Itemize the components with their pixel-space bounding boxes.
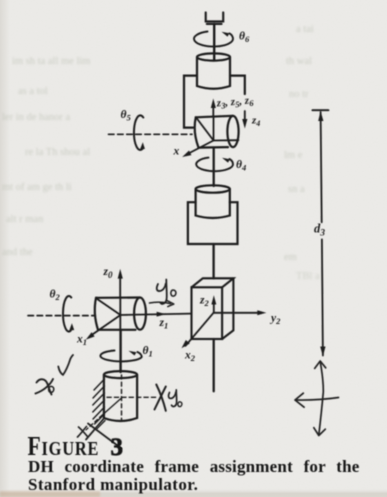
z1 axis line (shoulder to box) xyxy=(121,314,192,315)
svg-text:Stanford manipulator.: Stanford manipulator. xyxy=(28,475,198,494)
z3,z5,z6 axis arrow (up) xyxy=(212,107,214,117)
handwritten annotations xyxy=(36,280,339,449)
theta6 arrowhead xyxy=(222,32,230,37)
x1 axis arrow xyxy=(90,315,121,337)
svg-text:lm e: lm e xyxy=(284,150,303,161)
base diagonal axis (x toward label) xyxy=(100,398,122,418)
handwritten y0 (base) xyxy=(169,392,176,399)
gripper T bar xyxy=(207,23,222,25)
svg-text:alt r man: alt r man xyxy=(6,214,44,225)
theta1 arrowhead xyxy=(129,351,137,356)
handwritten arrow under y0 xyxy=(150,302,171,303)
svg-text:im sh ta all me lim: im sh ta all me lim xyxy=(12,56,90,67)
handwritten y0 (near shoulder) xyxy=(157,284,166,292)
bleed-through text (left margin) xyxy=(2,24,320,282)
figure caption xyxy=(28,432,360,494)
svg-text:th wal: th wal xyxy=(286,56,312,67)
svg-text:TBl a: TBl a xyxy=(296,271,320,282)
handwritten arrows (bottom right) xyxy=(319,362,324,436)
svg-text:mt of am ge th li: mt of am ge th li xyxy=(2,182,72,193)
z1 arrowhead xyxy=(157,312,166,317)
z0 axis arrow xyxy=(119,278,121,298)
svg-text:no tr: no tr xyxy=(289,89,309,100)
label d3 xyxy=(314,222,325,239)
forearm cylinder xyxy=(196,185,230,218)
forearm-to-box stem xyxy=(212,244,214,278)
svg-text:x: x xyxy=(173,146,180,158)
box lower stem xyxy=(213,339,215,391)
printed labels xyxy=(50,31,326,364)
svg-text:ler in de hanor a: ler in de hanor a xyxy=(2,112,71,123)
base dashed horizontal axis (y0) xyxy=(107,396,158,398)
theta5 dashed axis xyxy=(109,133,193,135)
gripper stem xyxy=(213,24,215,60)
wrist-to-forearm stem xyxy=(213,148,215,186)
handwritten X strokes over FIGURE 3 xyxy=(86,419,104,440)
shoulder interior corner xyxy=(97,299,121,315)
svg-text:a tai: a tai xyxy=(296,24,314,35)
theta5 arrowhead xyxy=(140,142,145,149)
d3 dimension line xyxy=(312,109,328,111)
svg-text:DH coordinate frame assignment: DH coordinate frame assignment for the xyxy=(28,457,360,476)
theta1 rotation ellipse xyxy=(100,351,141,362)
theta2 rotation C-arc xyxy=(63,296,71,332)
joint theta6 rotation ellipse xyxy=(194,32,233,47)
wrist support bracket xyxy=(184,76,197,128)
gripper U fork xyxy=(206,12,224,21)
prismatic joint box (frame 2) xyxy=(192,278,234,339)
z4 axis arrow (down) xyxy=(244,111,246,121)
z2 axis arrow xyxy=(213,300,215,313)
forearm bracket xyxy=(188,202,238,244)
x (wrist) axis arrow xyxy=(187,141,214,155)
wrist roll cylinder xyxy=(197,53,230,88)
theta5 rotation C-arc xyxy=(134,115,143,150)
shoulder cylinder xyxy=(95,298,146,330)
base hatching xyxy=(93,379,105,429)
base cylinder xyxy=(104,371,137,421)
shoulder vertical axis through cylinder xyxy=(119,298,121,331)
base dashed vertical axis xyxy=(121,375,123,421)
handwritten chi0 xyxy=(37,379,52,394)
handwritten X over y0 (base) xyxy=(156,385,166,411)
shoulder-to-base stem xyxy=(119,330,121,372)
y2 axis arrow xyxy=(214,312,260,314)
theta2 arrowhead xyxy=(69,323,74,330)
handwritten check xyxy=(58,355,73,375)
theta4 arrowhead xyxy=(222,158,230,163)
svg-text:sn a: sn a xyxy=(288,184,305,195)
svg-text:re la Th shou al: re la Th shou al xyxy=(25,147,90,158)
svg-text:and the: and the xyxy=(2,247,33,258)
svg-text:as a tol: as a tol xyxy=(18,86,48,97)
wrist interior corner lines xyxy=(197,116,239,140)
x2 axis arrow xyxy=(186,313,214,346)
handwritten x (near figure label) xyxy=(79,427,88,437)
wrist pitch cross cylinder xyxy=(195,116,239,148)
theta4 rotation ellipse xyxy=(196,158,233,172)
theta2 dashed axis xyxy=(28,315,94,317)
svg-text:em: em xyxy=(284,252,297,263)
